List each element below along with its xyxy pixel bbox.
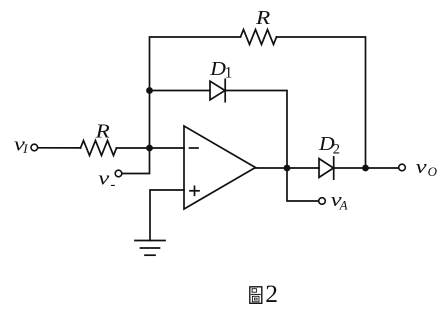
svg-text:2: 2	[333, 142, 340, 158]
label v-	[98, 167, 115, 193]
op-amp U1	[184, 126, 256, 209]
wire: D2 cathode to output terminal	[334, 167, 399, 169]
terminal vO	[399, 164, 406, 171]
wire: op-amp output to D2 anode	[256, 167, 320, 169]
svg-text:R: R	[255, 7, 270, 29]
svg-text:v: v	[98, 167, 109, 189]
resistor R (feedback)	[241, 30, 277, 45]
wire: vA branch	[287, 168, 319, 201]
label vA	[331, 189, 348, 212]
label vI	[14, 133, 28, 155]
svg-text:D: D	[209, 57, 226, 80]
svg-text:2: 2	[265, 279, 278, 308]
terminal vI	[31, 144, 38, 151]
svg-text:O: O	[428, 164, 438, 179]
wire: inverting node to op-amp minus input	[150, 147, 185, 149]
label D2	[318, 132, 340, 158]
svg-text:A: A	[339, 197, 348, 212]
wire: non-inverting input to ground drop	[150, 190, 184, 241]
terminal vA	[319, 198, 326, 205]
ground	[135, 241, 165, 256]
wire: D1 anode wire from node on left vertical	[150, 90, 211, 92]
svg-text:v: v	[416, 156, 427, 178]
svg-text:I: I	[22, 141, 28, 156]
wire: v- branch	[122, 148, 150, 174]
label vO	[416, 156, 438, 179]
wire: resistor to inverting node	[117, 147, 150, 149]
svg-text:1: 1	[225, 65, 233, 82]
svg-text:-: -	[110, 177, 115, 193]
svg-text:R: R	[95, 120, 110, 142]
diode D2	[319, 157, 334, 179]
wire: top feedback right segment (resistor to output node)	[277, 37, 366, 168]
resistor R (input)	[81, 141, 117, 156]
wire: input terminal to resistor R	[38, 147, 81, 149]
node: inverting input junction	[146, 145, 153, 152]
node: op-amp output junction	[284, 165, 291, 172]
node: vO junction with feedback	[362, 165, 369, 172]
node: junction of D1 anode on left vertical wire	[146, 87, 153, 94]
terminal v-	[115, 170, 122, 177]
diode D1	[210, 79, 225, 101]
wire: top feedback left segment (node to resistor R)	[150, 37, 241, 148]
label D1	[209, 57, 232, 82]
caption: character 圖 (drawn)	[250, 287, 262, 304]
wire: D1 cathode to output node	[225, 91, 287, 169]
